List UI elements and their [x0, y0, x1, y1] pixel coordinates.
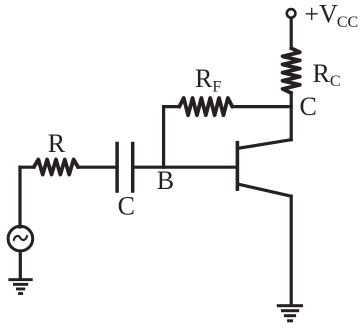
svg-text:C: C: [118, 192, 135, 221]
svg-text:B: B: [157, 166, 174, 195]
svg-text:R: R: [48, 129, 66, 158]
svg-text:C: C: [300, 92, 317, 121]
